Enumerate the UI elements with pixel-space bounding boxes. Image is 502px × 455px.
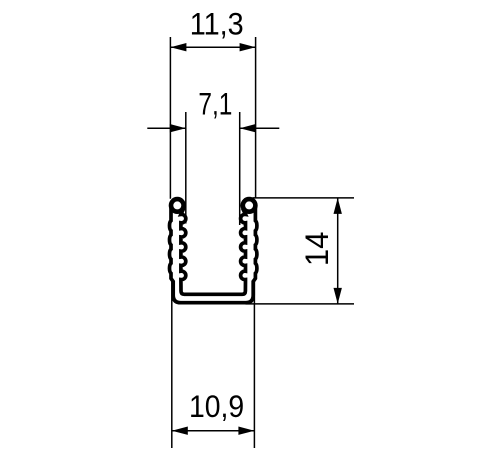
arrowhead 11,3 left	[170, 43, 186, 51]
extension line 10,9 right	[253, 278, 255, 448]
arrowhead 10,9 left	[172, 427, 188, 435]
arrowhead 14 bottom	[334, 288, 342, 304]
arrowhead 7,1 right	[240, 124, 256, 132]
extension line 14 bottom	[246, 303, 355, 305]
extension line 14 top	[253, 197, 355, 199]
dimension line 11,3	[170, 46, 255, 48]
profile right top bead	[243, 199, 256, 212]
extension line 11,3 right	[255, 37, 257, 198]
arrowhead 14 top	[334, 198, 342, 214]
dimension line 10,9	[172, 430, 255, 432]
profile outer contour	[170, 207, 257, 303]
extension line 7,1 left	[185, 112, 187, 224]
profile inner contour with grip ribs	[181, 208, 246, 294]
arrowhead 11,3 right	[240, 43, 256, 51]
dimension line 7,1 right tail	[240, 127, 280, 129]
extension line 10,9 left	[171, 278, 173, 448]
svg-text:14: 14	[299, 232, 335, 267]
arrowhead 7,1 left	[170, 124, 186, 132]
profile left top bead	[171, 199, 184, 212]
svg-text:11,3: 11,3	[190, 6, 244, 42]
arrowhead 10,9 right	[238, 427, 254, 435]
dimension line 14	[337, 198, 339, 304]
svg-text:7,1: 7,1	[198, 86, 232, 122]
extension line 7,1 right	[239, 112, 241, 225]
extension line 11,3 left	[169, 37, 171, 199]
svg-text:10,9: 10,9	[189, 388, 244, 424]
dimension line 7,1 left tail	[147, 127, 186, 129]
